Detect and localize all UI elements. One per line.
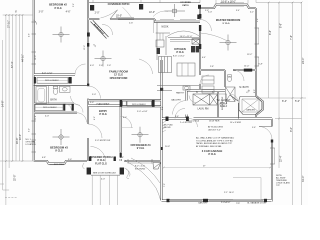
- closet bed3 outline: [35, 104, 63, 110]
- door arcs: [75, 11, 272, 162]
- svg-text:GALLERY: GALLERY: [171, 99, 182, 102]
- garage interior dim line: [162, 167, 272, 169]
- svg-text:9'-0": 9'-0": [290, 127, 293, 132]
- window sill master bay: [220, 2, 244, 4]
- window sill garage right: [273, 148, 275, 164]
- kitchen sink dark: [157, 48, 161, 54]
- window ticks left wall bed2: [32, 22, 37, 64]
- laundry door arc: [173, 101, 187, 115]
- family east arc: [139, 59, 153, 74]
- bay window inner line: [220, 5, 244, 7]
- svg-text:5'-0"x8'-0": 5'-0"x8'-0": [221, 202, 231, 204]
- closet divider tub: [238, 103, 240, 119]
- svg-text:3'-0": 3'-0": [90, 102, 94, 104]
- hall closet jamb right: [152, 100, 155, 107]
- svg-text:5'-6": 5'-6": [175, 116, 179, 118]
- svg-text:BOX WDW: BOX WDW: [54, 164, 64, 166]
- garage west wall jamb: [161, 147, 163, 150]
- svg-text:MASTER BEDROOM: MASTER BEDROOM: [216, 19, 240, 22]
- bath divider line: [48, 86, 50, 104]
- master left wall jamb: [199, 14, 201, 19]
- svg-text:9' CLG: 9' CLG: [137, 147, 145, 150]
- svg-text:13'-2": 13'-2": [247, 54, 253, 56]
- svg-text:5'-0": 5'-0": [92, 94, 96, 96]
- svg-text:5'-6": 5'-6": [252, 127, 256, 129]
- garage side door jamb: [271, 140, 273, 143]
- right margin note block: [276, 175, 290, 187]
- svg-text:8'-6": 8'-6": [279, 23, 282, 28]
- svg-text:4'-2": 4'-2": [250, 12, 254, 14]
- svg-text:BATH: BATH: [50, 98, 56, 101]
- note text block garage: [164, 123, 235, 167]
- right dimension lines: [256, 3, 306, 206]
- svg-text:2'-6": 2'-6": [129, 23, 133, 25]
- room label master bedroom: [216, 19, 240, 25]
- svg-text:8'-6" x 13'-0": 8'-6" x 13'-0": [173, 55, 185, 57]
- master bath door arc: [233, 70, 244, 81]
- master bath angled door: [230, 95, 238, 101]
- svg-text:12'-0": 12'-0": [35, 55, 37, 60]
- svg-text:7'-0": 7'-0": [164, 183, 166, 187]
- patio post 3: [198, 5, 201, 9]
- room label covered patio 2: [180, 2, 191, 7]
- svg-text:PLANT SHELF: PLANT SHELF: [97, 102, 111, 105]
- window sill kitchen top: [160, 19, 196, 21]
- office door arc: [121, 117, 132, 128]
- office ceiling line: [121, 127, 133, 129]
- svg-text:TO LIVING AREA 5/8" TYPE X GYP: TO LIVING AREA 5/8" TYPE X GYP BD: [196, 139, 233, 142]
- hall closet outline: [127, 101, 152, 106]
- svg-text:GAR. DR: GAR. DR: [198, 201, 207, 204]
- ceiling fan bed3: [53, 129, 70, 145]
- svg-text:9' CLG: 9' CLG: [55, 150, 63, 153]
- closet bed2 jamb: [69, 77, 72, 84]
- svg-text:22'-4": 22'-4": [279, 156, 282, 162]
- porch column left: [87, 168, 91, 175]
- closet bed2 rod line: [37, 79, 68, 81]
- room label kitchen: [174, 47, 186, 54]
- bath tub: [36, 87, 47, 104]
- svg-text:W: W: [196, 92, 198, 94]
- svg-text:6'-4": 6'-4": [202, 57, 206, 59]
- svg-text:ROD & SHELF: ROD & SHELF: [43, 107, 58, 109]
- svg-text:3'-0" ENTRY DR: 3'-0" ENTRY DR: [95, 140, 111, 142]
- walls dark pass: [34, 0, 273, 202]
- svg-text:5'-0": 5'-0": [29, 128, 31, 132]
- svg-text:BEDROOM #2: BEDROOM #2: [49, 3, 67, 7]
- stoop trapezoid: [153, 163, 161, 170]
- svg-text:Frame to Slab: Frame to Slab: [186, 119, 200, 122]
- kitchen cabinets: [156, 22, 199, 91]
- closet shelf wall bed2 bottom: [34, 85, 88, 87]
- bed3 door arc: [88, 124, 102, 138]
- dimension texts top: [15, 1, 236, 18]
- svg-text:24'-0": 24'-0": [302, 58, 305, 64]
- svg-text:7'-6": 7'-6": [290, 35, 293, 40]
- svg-text:37'-10": 37'-10": [8, 20, 11, 28]
- svg-text:SHELF: SHELF: [220, 106, 228, 108]
- bed2 door arc: [75, 64, 86, 75]
- svg-text:6'-0" x 2'-0": 6'-0" x 2'-0": [42, 72, 53, 74]
- hall closet band: jamb left: [120, 100, 123, 107]
- left margin option note: [26, 139, 37, 146]
- master bath shower: [226, 87, 236, 102]
- kitchen step dim line: [153, 19, 155, 33]
- svg-text:16'x8' HDR: 16'x8' HDR: [209, 120, 220, 122]
- svg-text:NOOK: NOOK: [161, 26, 168, 29]
- svg-text:TYP: TYP: [276, 185, 281, 187]
- patio post 1: [90, 5, 94, 11]
- svg-text:3'-0": 3'-0": [39, 11, 44, 14]
- bath door arc: [71, 96, 81, 105]
- svg-text:32'-8": 32'-8": [14, 175, 17, 181]
- svg-text:4'-0": 4'-0": [101, 179, 105, 181]
- front door arc: [91, 147, 106, 162]
- svg-text:8'-6": 8'-6": [269, 30, 272, 35]
- master wall lower jamb: [197, 15, 200, 20]
- extra dim text smudges: [29, 3, 260, 187]
- svg-text:W.I. CLOSET: W.I. CLOSET: [217, 100, 231, 102]
- garage top wall jambs: [166, 117, 169, 122]
- svg-text:ATTIC ACCESS: ATTIC ACCESS: [208, 126, 223, 129]
- gallery garage door arc: [175, 109, 185, 119]
- ceiling fan master: [220, 35, 237, 51]
- kitchen hall shelves: [202, 76, 214, 93]
- kitchen sink dark 2: [160, 88, 163, 91]
- room label nook: [161, 26, 192, 38]
- fireplace jamb: [87, 33, 90, 37]
- closet bed3 door arc: [66, 104, 72, 110]
- svg-text:6'-8": 6'-8": [42, 157, 46, 159]
- entry front door jambs: [89, 157, 91, 162]
- master garden tub diamond: [239, 97, 262, 115]
- svg-text:15'-6": 15'-6": [84, 45, 86, 50]
- office wall jamb: [120, 153, 122, 158]
- svg-text:ROD & SHELF: ROD & SHELF: [45, 80, 60, 82]
- room label covered porch: [90, 155, 113, 165]
- kitchen arch soffit: [167, 31, 200, 37]
- svg-text:11'-4": 11'-4": [35, 115, 37, 120]
- patio label leader line: [123, 7, 132, 17]
- left dimension lines: [0, 15, 33, 206]
- svg-text:5'-0": 5'-0": [295, 100, 300, 103]
- laundry washer dryer: [193, 94, 227, 105]
- svg-text:GL GARAGE DOOR: GL GARAGE DOOR: [247, 202, 266, 205]
- svg-text:ROD & SHELF: ROD & SHELF: [132, 104, 147, 106]
- patio post 2: [139, 4, 143, 10]
- svg-text:SGL HUNG: SGL HUNG: [135, 169, 146, 171]
- room label bedroom3: [50, 146, 68, 153]
- master wall jambs: [199, 25, 201, 31]
- top margin ticks: [93, 0, 256, 4]
- garage side door arc: [259, 127, 272, 140]
- svg-text:5'-0" x 6'-8": 5'-0" x 6'-8": [137, 111, 148, 113]
- svg-text:4'-6": 4'-6": [94, 116, 96, 120]
- svg-text:6'-8": 6'-8": [257, 18, 259, 22]
- svg-text:AT FIREWALL SEE DETAIL: AT FIREWALL SEE DETAIL: [196, 145, 223, 148]
- garage storage rect: [233, 178, 261, 200]
- patio door arc: [101, 11, 117, 19]
- svg-text:6'-0": 6'-0": [123, 117, 127, 119]
- svg-text:10'-0" x 11'-0": 10'-0" x 11'-0": [180, 36, 193, 38]
- note text bottom right: [198, 192, 266, 205]
- svg-text:3'-4": 3'-4": [236, 10, 240, 12]
- svg-text:COVERED PATIO: COVERED PATIO: [108, 2, 130, 6]
- svg-text:9' CLG: 9' CLG: [176, 51, 184, 54]
- svg-text:14'-0": 14'-0": [244, 65, 250, 67]
- svg-text:9' CLG: 9' CLG: [208, 153, 216, 156]
- bath fixtures: [36, 86, 70, 103]
- garage hall door arc: [189, 119, 198, 128]
- patio door leaf: [110, 10, 118, 19]
- master entry door arc: [200, 20, 212, 32]
- porch column right: [120, 168, 124, 175]
- svg-text:9' CLG: 9' CLG: [54, 8, 62, 10]
- pocket door header master bath: [244, 69, 252, 72]
- svg-text:GARDEN: GARDEN: [246, 109, 255, 112]
- svg-text:FLAT CLG: FLAT CLG: [95, 162, 107, 165]
- svg-text:LOCATION: LOCATION: [26, 143, 37, 146]
- master toilet: [228, 75, 232, 82]
- ceiling fan office: [132, 127, 149, 143]
- ceiling fan family: [95, 51, 112, 67]
- kitchen extra detail lines: [160, 33, 190, 89]
- svg-text:2'-1" 16'-0": 2'-1" 16'-0": [224, 192, 234, 194]
- bath sink counter: [60, 86, 71, 92]
- svg-text:TYP: TYP: [236, 203, 241, 205]
- svg-text:2'-0": 2'-0": [95, 12, 100, 15]
- svg-text:M. BATH: M. BATH: [239, 86, 248, 89]
- window ticks left wall bed3: [32, 121, 37, 152]
- svg-text:2'-6": 2'-6": [107, 65, 111, 67]
- hall nook arc bed3: [75, 104, 84, 113]
- svg-text:44'-10": 44'-10": [21, 54, 24, 62]
- svg-text:ROD &: ROD &: [220, 103, 228, 105]
- porch front edge: [91, 174, 120, 176]
- ceiling fan patio: [153, 4, 185, 17]
- svg-text:3'-0": 3'-0": [68, 159, 72, 161]
- svg-text:4'-0": 4'-0": [45, 116, 49, 118]
- svg-text:14'-8": 14'-8": [2, 101, 5, 107]
- window sill office front: [128, 162, 152, 164]
- bed3 closet arc: [77, 113, 87, 123]
- svg-text:PANTRY: PANTRY: [176, 92, 185, 95]
- sliding door family top: [116, 18, 134, 20]
- svg-text:16' x 8' HDR: 16' x 8' HDR: [230, 122, 242, 124]
- patio top edge: [89, 1, 200, 3]
- kitchen cooktop block: [192, 39, 200, 44]
- svg-text:8'-4": 8'-4": [282, 100, 287, 103]
- svg-text:OPEN BEYOND: OPEN BEYOND: [110, 77, 128, 80]
- master right wall window 2: [257, 57, 259, 66]
- svg-text:LAUN. RM: LAUN. RM: [198, 107, 209, 110]
- svg-text:57'-4": 57'-4": [11, 62, 14, 68]
- garage door jamb marks: [167, 199, 268, 202]
- kitchen oven tower: [191, 46, 195, 52]
- office front window texts: [135, 166, 146, 171]
- window sill master right: [257, 28, 259, 44]
- svg-text:4'-6": 4'-6": [66, 11, 71, 14]
- svg-text:9' CLG: 9' CLG: [99, 113, 107, 116]
- driveway sweep curves: [124, 158, 161, 200]
- svg-text:SEE DOOR SCHEDULE: SEE DOOR SCHEDULE: [93, 173, 116, 175]
- family wall jamb: [87, 43, 89, 47]
- svg-text:ALL WALLS AND CLG OF GARAGE AD: ALL WALLS AND CLG OF GARAGE ADJ: [196, 137, 234, 140]
- hall closet niche box: [123, 101, 127, 106]
- svg-text:8'-0" x 5'-0": 8'-0" x 5'-0": [135, 166, 145, 168]
- laundry door arc: [189, 96, 196, 103]
- ac platform hatch: [163, 121, 167, 132]
- svg-text:2'-8": 2'-8": [120, 157, 124, 159]
- porch shrub swirls: [83, 163, 130, 179]
- svg-text:2'-8": 2'-8": [210, 66, 214, 68]
- svg-text:9' CLG: 9' CLG: [223, 23, 230, 25]
- ceiling fan bed2: [53, 27, 70, 43]
- door curl left wall top: [34, 20, 37, 25]
- svg-text:8'-0": 8'-0": [254, 89, 256, 93]
- svg-text:10'-0": 10'-0": [149, 11, 155, 14]
- svg-text:3'-6": 3'-6": [73, 3, 75, 7]
- room label entry: [99, 110, 107, 116]
- closet bed3 rod line: [35, 106, 63, 108]
- garage door openings: [170, 200, 264, 202]
- closet bed3 jambs: [63, 104, 65, 111]
- room label family room: [109, 70, 128, 80]
- small texts scattered: [42, 12, 263, 181]
- window ticks master right: [255, 28, 260, 44]
- svg-text:20'-8": 20'-8": [165, 146, 170, 148]
- svg-text:4'-6": 4'-6": [29, 33, 31, 37]
- svg-text:PATIO: PATIO: [182, 4, 189, 7]
- dimension texts left margin (rotated): [2, 20, 25, 181]
- room label wi closet: [217, 100, 231, 108]
- room label office: [130, 143, 151, 150]
- svg-text:31'-0": 31'-0": [302, 176, 305, 182]
- svg-text:8'-2": 8'-2": [162, 106, 164, 110]
- left margin dashes bottom: [5, 197, 17, 199]
- dimension texts right margin: [269, 23, 305, 182]
- room label bedroom2: [49, 3, 67, 10]
- svg-text:LAYOUT 9'-0": LAYOUT 9'-0": [208, 128, 221, 131]
- master closet curve: [200, 33, 227, 41]
- svg-text:TAPED, BEDDED AND FLOATED TYP: TAPED, BEDDED AND FLOATED TYP: [196, 142, 233, 145]
- fireplace hearth arc: [102, 24, 113, 35]
- svg-text:5'-8": 5'-8": [259, 63, 263, 65]
- porch walkway lines: [92, 175, 117, 205]
- window sill bed3 bay: [50, 164, 64, 166]
- svg-text:4'-0": 4'-0": [90, 65, 94, 67]
- svg-text:19'-0": 19'-0": [116, 15, 122, 18]
- bath toilet: [53, 89, 58, 95]
- dimension slash ticks left margin: [5, 2, 302, 162]
- walls white core pass: [34, 0, 273, 202]
- svg-text:2'-6": 2'-6": [99, 65, 103, 67]
- closet bed2 outline: [37, 78, 68, 84]
- room label garage: [202, 149, 223, 156]
- hall to master door arc: [200, 75, 209, 84]
- svg-text:11'-0": 11'-0": [19, 134, 22, 140]
- family hall door arc: [88, 86, 101, 99]
- svg-text:16'-8" x 18'-0": 16'-8" x 18'-0": [221, 1, 236, 4]
- fireplace diagonal: [91, 20, 109, 38]
- svg-text:5'-4": 5'-4": [208, 12, 212, 14]
